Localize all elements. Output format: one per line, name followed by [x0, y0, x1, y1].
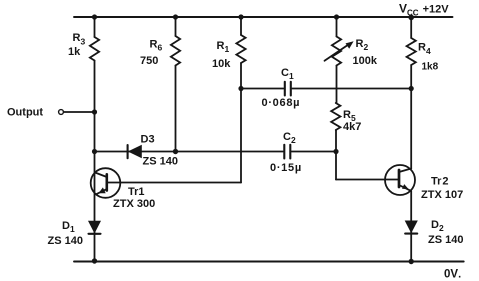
- svg-text:R4: R4: [418, 42, 431, 56]
- svg-text:ZTX 300: ZTX 300: [113, 198, 155, 210]
- svg-text:ZS 140: ZS 140: [48, 235, 83, 247]
- svg-text:Tr2: Tr2: [431, 176, 449, 188]
- svg-text:D3: D3: [141, 134, 155, 146]
- svg-text:VCC+12V: VCC+12V: [399, 2, 449, 18]
- svg-text:1k: 1k: [68, 46, 81, 58]
- svg-text:0V.: 0V.: [444, 269, 461, 281]
- svg-text:D1: D1: [62, 220, 75, 234]
- svg-text:Output: Output: [7, 106, 43, 118]
- svg-text:0·068µ: 0·068µ: [262, 97, 301, 109]
- svg-text:100k: 100k: [353, 55, 378, 67]
- svg-text:4k7: 4k7: [343, 121, 361, 133]
- svg-text:R2: R2: [356, 38, 369, 52]
- svg-text:D2: D2: [431, 219, 444, 233]
- svg-text:R1: R1: [217, 40, 230, 54]
- svg-text:ZS 140: ZS 140: [428, 234, 463, 246]
- svg-text:C1: C1: [281, 67, 294, 81]
- svg-text:R6: R6: [150, 38, 163, 52]
- svg-text:Tr1: Tr1: [128, 186, 145, 198]
- svg-text:750: 750: [140, 55, 158, 67]
- svg-text:0·15µ: 0·15µ: [270, 162, 302, 174]
- svg-text:R3: R3: [73, 32, 86, 46]
- svg-text:ZTX 107: ZTX 107: [421, 189, 463, 201]
- svg-text:C2: C2: [283, 131, 296, 145]
- svg-text:ZS 140: ZS 140: [143, 155, 178, 167]
- svg-text:1k8: 1k8: [422, 62, 439, 73]
- svg-text:10k: 10k: [212, 58, 231, 70]
